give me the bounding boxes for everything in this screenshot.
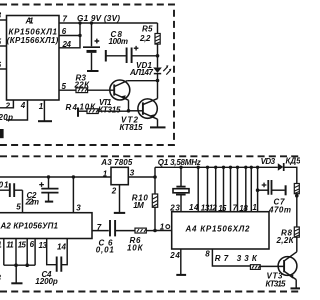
ground A2 [11,282,22,284]
node A3 out [153,175,157,179]
pin 1 label A4 top [252,203,257,212]
pin 7 label [63,15,68,24]
node R6-R10 [153,229,157,233]
pin 14 label A2 [57,242,67,251]
wire to A4 pin1 [155,230,172,232]
pin 7 label A2 [97,223,102,232]
VT2 labels [120,116,144,132]
terminal VT3 emitter [291,287,301,289]
svg-text:1: 1 [39,102,44,111]
resistor R8 [294,227,299,237]
ground C8 [105,50,107,62]
svg-text:22m: 22m [25,198,40,207]
wire battery top [91,23,93,46]
wire R10 bottom [154,207,156,230]
wire A2 pin13 [47,239,56,265]
wire C7 riser pin [257,167,259,211]
ground VT2 [150,126,166,128]
A2 bottom pin wires [4,239,35,268]
regulator A3 7805 [111,167,128,184]
transistor VT3 [278,252,297,280]
wire VD1 cathode [157,74,159,81]
diode VD3 [278,163,284,171]
diode VD3 label [261,157,276,166]
pin 3 label A3 [130,168,135,177]
wire R7 to VT3 base [260,265,284,267]
A1 label [7,17,59,46]
wire crystal bottom pin23 [180,195,182,212]
svg-text:470m: 470m [268,205,291,214]
node pin6 [78,34,81,37]
wire C8 right [132,55,158,57]
pin 3 label A2 [76,203,81,212]
resistor R4 [87,109,98,114]
cut label C3 [0,274,2,283]
svg-text:(КР1566ХЛ1): (КР1566ХЛ1) [7,36,59,45]
transistor VT1 [110,80,130,100]
LED VD1 [153,65,171,74]
svg-text:1200р: 1200р [35,277,58,286]
svg-text:КТ815: КТ815 [120,123,144,132]
capacitor C7 [262,180,272,195]
C4 labels [35,270,58,286]
wire R5 top [157,23,159,34]
svg-text:6: 6 [62,27,67,36]
node rail-battery [90,21,93,24]
wire R9 bottom [296,194,298,227]
wire pin24 [59,23,80,48]
C7 labels [268,197,291,214]
cut label 5 [0,38,2,47]
wire VT3 emitter [295,280,297,288]
A1 left pin stub a [0,19,7,21]
svg-text:2,2К: 2,2К [276,236,295,245]
resistor R9 unlabeled [294,184,299,194]
pin 18 label [239,204,248,213]
IC A1 box [7,16,60,101]
wire A2 pin14 [62,239,67,265]
ground C2 [45,201,53,203]
wire VT1 emitter [128,100,130,111]
pin 1 bubble A4 [160,222,170,231]
wire pin5 [59,89,76,91]
svg-text:1: 1 [160,222,165,231]
wire C7 right [272,189,285,191]
A1 left pin stub c [0,68,7,70]
wire riser to top rail [154,167,156,177]
node rail-pin3 [72,175,75,178]
resistor R5 [155,34,160,45]
A2 label [0,222,59,231]
node rail-C2 [47,175,50,178]
wire pin4 [6,100,28,120]
svg-text:12: 12 [209,203,218,212]
svg-text:15: 15 [18,240,27,249]
LED VD1 labels [129,61,154,77]
svg-text:2: 2 [111,186,117,195]
A4 top pin wires [197,166,254,212]
ground G1 [87,70,99,72]
svg-text:11: 11 [6,240,14,249]
pin 24 label [62,40,72,49]
svg-text:КТ315: КТ315 [266,279,287,288]
node R9-R8 [295,194,299,198]
pin 6 label A2 [30,240,35,249]
resistor R10 labels [132,193,149,210]
svg-text:КТ315: КТ315 [98,105,121,114]
wire VT1 collector [127,80,157,82]
C6 labels [96,238,115,254]
capacitor C8 [127,46,139,63]
wire C6 to R6 [115,230,135,232]
resistor R10 [152,194,157,207]
svg-text:10К: 10К [127,243,144,252]
pin 1 label [39,102,44,111]
svg-text:Q1 3,58MHz: Q1 3,58MHz [158,158,201,167]
svg-text:20р: 20р [0,113,13,122]
wire A2 pin5 [22,190,24,213]
dashed border bottom unit bottom [0,291,300,293]
resistor R5 labels [139,25,153,44]
resistor R3 [76,88,88,93]
wire R6 right [146,230,155,232]
resistor R3 labels [74,74,91,90]
R6 labels [127,236,144,253]
svg-text:1: 1 [252,203,257,212]
svg-text:24: 24 [169,251,180,260]
wire crystal top [180,167,182,186]
wire pin6 [59,35,80,37]
VD3 type label cut [286,156,306,165]
svg-text:23: 23 [169,203,180,212]
pin 2 label [5,102,11,111]
wire A4 pin8 [212,249,250,266]
wire VT2 emitter [157,119,159,126]
connector cut fragment [0,129,4,138]
pin 5 label [62,82,67,91]
capacitor C1 value cut [0,181,9,190]
pin 1 label A3 [103,169,108,178]
pin 13 label [39,241,48,250]
svg-text:14: 14 [189,203,199,212]
pin 23 label [169,203,180,212]
capacitor C2 [39,177,58,201]
pin 2 label A3 [111,186,117,195]
svg-text:КД52: КД52 [286,156,301,165]
wire R4 left [78,110,87,112]
transistor VT2 [129,99,158,120]
wire C7 left [258,189,268,191]
wire top rail bottom unit [155,166,278,168]
pin 12 label [209,203,218,212]
wire R8 bottom [296,237,298,252]
node rail-crystal [179,166,182,169]
wire C8 left [106,55,126,57]
cut label 6 [0,61,2,70]
IC A2 box [0,213,92,239]
wire R3 to VT1 base [88,89,114,91]
svg-text:А1: А1 [25,17,34,26]
crystal Q1 label [158,158,201,167]
node rail-pin24 [78,21,81,24]
svg-text:G1 9V (3V): G1 9V (3V) [77,14,120,23]
wire VT2 collector [157,81,159,99]
wire battery bottom [91,53,93,71]
wire A2 pin3 [72,177,74,213]
pin 13 label [201,203,210,212]
pin 5 label A2 [16,202,21,211]
regulator A3 label [100,158,133,167]
dashed border bottom unit top [0,155,300,157]
wire A4 pin24 [180,249,182,274]
svg-text:4: 4 [20,101,26,110]
svg-text:5: 5 [16,202,21,211]
IC A4 box [172,212,269,249]
capacitor C4 [57,257,62,272]
wire A2 pin7 [93,230,109,232]
capacitor C6 [110,220,115,236]
ground pin1 [38,120,52,122]
cut label 8 [0,11,2,20]
resistor R4 labels [66,103,97,113]
svg-text:0,01: 0,01 [96,245,115,254]
VT3 labels [266,271,287,288]
ground A3 [114,212,125,214]
svg-text:2: 2 [5,102,11,111]
resistor R7 label [215,254,258,263]
wire VD1 anode [157,56,159,68]
wire A3 gnd [119,185,121,213]
svg-text:R5: R5 [142,25,153,34]
node collectors [156,79,160,83]
svg-text:1: 1 [103,169,108,178]
node VT2 base [127,109,131,113]
wire +9V rail [59,22,158,24]
wire A3 out [128,176,155,178]
ground A4 pin24 [176,274,186,276]
wire +9V rail bottom unit [0,176,111,178]
wire pin2 [0,100,13,108]
svg-text:АЛ147: АЛ147 [129,68,154,77]
svg-text:,01: ,01 [0,181,9,190]
battery G1 label [77,14,120,23]
node rail C7 riser [256,166,259,169]
VT1 labels [98,98,121,114]
svg-text:А2 КР1056УП1: А2 КР1056УП1 [0,222,59,231]
resistor R6 [135,228,146,233]
wire pin1 [43,100,45,121]
pin 11 label [6,240,14,249]
A1 left pin stub b [0,45,7,47]
pin 15 label [18,240,27,249]
svg-text:1М: 1М [133,201,144,210]
battery G1 [83,39,100,52]
svg-text:100m: 100m [109,37,129,46]
crystal Q1 [173,187,189,195]
A4 label [185,224,251,233]
capacitor 20p label [0,113,13,122]
terminal R4 [77,108,79,117]
capacitor C2 labels [25,191,40,207]
svg-text:VD3: VD3 [261,157,276,166]
svg-text:3: 3 [130,168,135,177]
svg-text:3: 3 [76,203,81,212]
resistor R8 labels [276,229,295,246]
wire ground drop A2 [15,265,17,282]
pin 4 label [20,101,26,110]
svg-text:А4 КР1506ХЛ2: А4 КР1506ХЛ2 [185,224,251,233]
pin 1 label A2 cut [0,240,2,249]
pin 8 label A4 [205,250,210,259]
svg-text:2,2: 2,2 [139,34,151,43]
terminal C7 [285,185,287,195]
svg-text:7: 7 [63,15,68,24]
svg-text:18: 18 [239,204,248,213]
wire VD3 out [284,167,297,183]
capacitor C1 [0,183,23,197]
wire R4 right [98,110,128,112]
wire R5 bottom [157,44,159,56]
svg-text:6: 6 [30,240,35,249]
svg-text:А3 7805: А3 7805 [100,158,133,167]
dashed enclosure top unit [0,5,174,146]
capacitor C8 labels [109,30,129,46]
svg-text:15: 15 [218,204,227,213]
pin 7 label A4 [233,203,238,212]
pin 15 label [218,204,227,213]
pin 24 label A4 [169,251,180,260]
pin 14 label [189,203,199,212]
svg-text:14: 14 [57,242,67,251]
pin 6 label [62,27,67,36]
wire R10 top [154,177,156,194]
svg-text:8: 8 [205,250,210,259]
node C7 tap [256,188,260,192]
resistor R7 [250,265,260,270]
node R5-C8 [156,54,160,58]
svg-text:7: 7 [233,203,238,212]
